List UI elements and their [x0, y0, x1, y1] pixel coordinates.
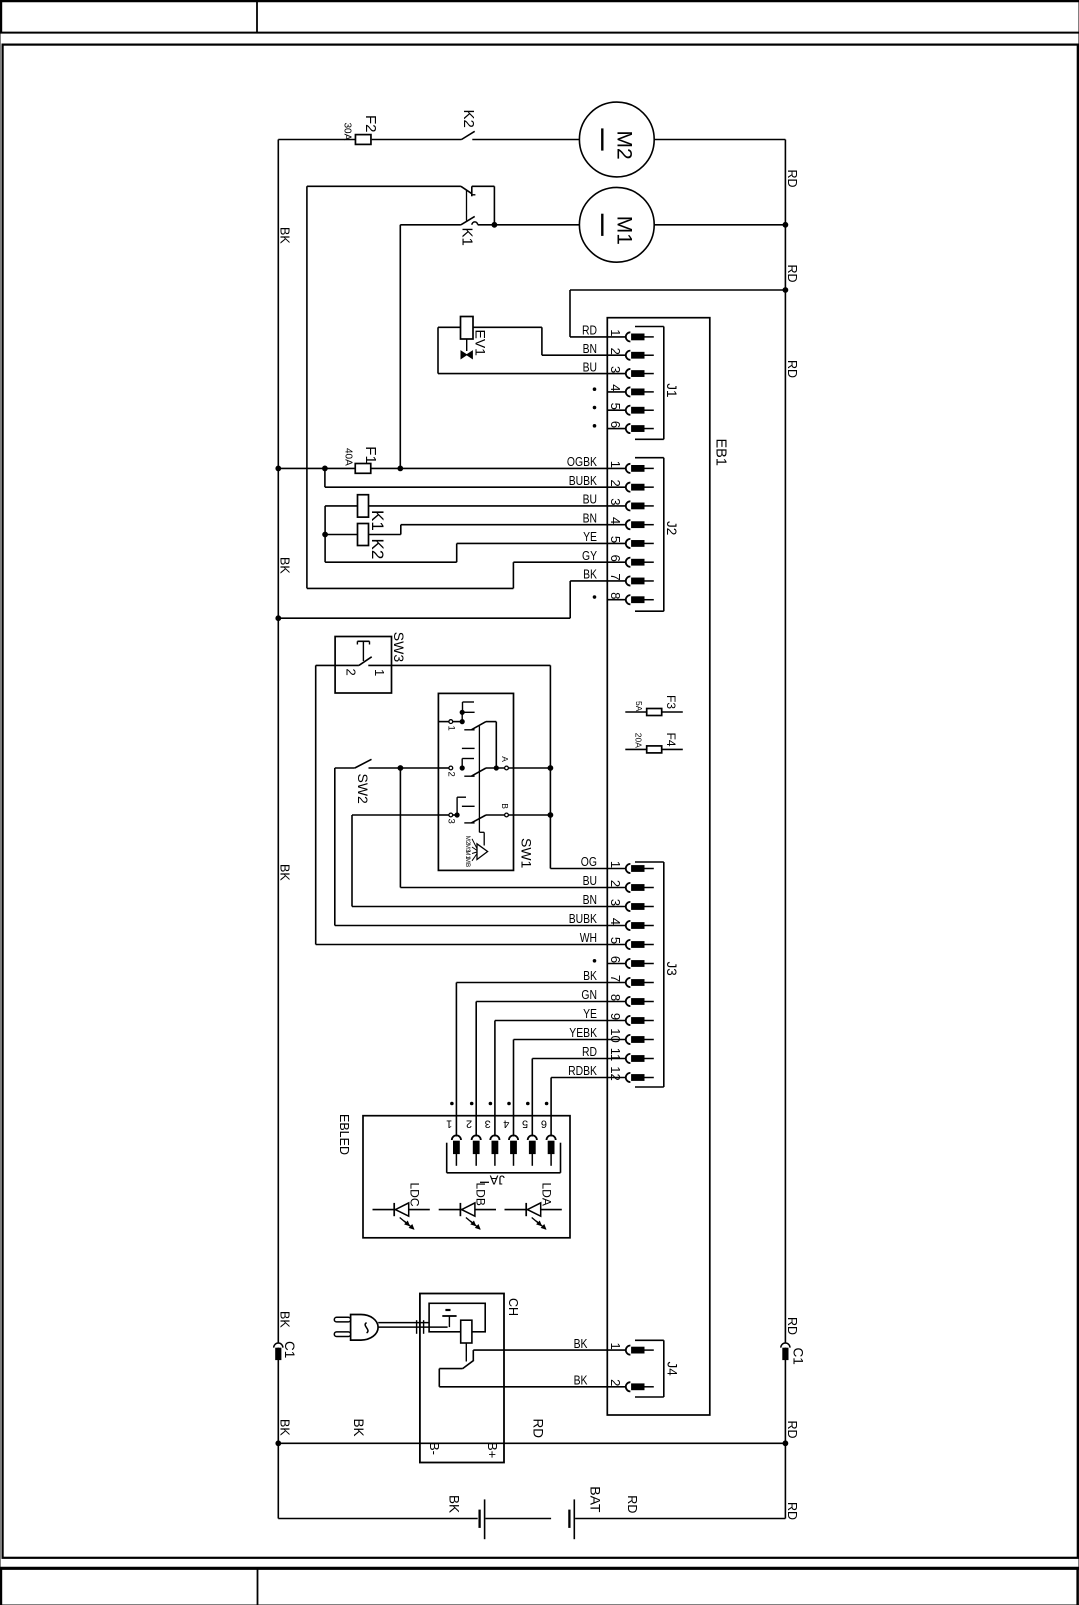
svg-text:1: 1 [446, 726, 457, 731]
svg-text:MB: MB [464, 858, 471, 867]
svg-text:LDC: LDC [408, 1183, 422, 1207]
svg-text:1: 1 [446, 1117, 452, 1129]
svg-text:40A: 40A [343, 448, 354, 466]
svg-text:B-: B- [427, 1442, 442, 1455]
svg-text:5: 5 [608, 937, 623, 944]
svg-text:BK: BK [278, 227, 292, 244]
svg-text:BK: BK [351, 1419, 366, 1437]
svg-text:RD: RD [785, 1502, 799, 1520]
svg-text:3: 3 [608, 366, 623, 373]
svg-text:4: 4 [608, 384, 623, 391]
svg-text:RD: RD [625, 1495, 639, 1513]
svg-text:WH: WH [580, 930, 597, 945]
svg-text:8: 8 [608, 994, 623, 1001]
svg-text:BU: BU [583, 492, 597, 507]
svg-text:A: A [500, 756, 510, 762]
svg-text:K2: K2 [368, 539, 387, 560]
svg-text:GY: GY [582, 548, 597, 563]
svg-text:BN: BN [583, 510, 597, 525]
svg-text:F4: F4 [664, 733, 678, 747]
svg-text:BAT: BAT [587, 1486, 603, 1513]
svg-text:LDB: LDB [474, 1183, 488, 1206]
svg-text:BUBK: BUBK [569, 911, 598, 926]
svg-text:BK: BK [574, 1373, 588, 1388]
svg-text:EBLED: EBLED [337, 1114, 351, 1155]
svg-text:EV1: EV1 [473, 330, 489, 357]
svg-text:RD: RD [582, 323, 597, 338]
svg-text:F1: F1 [362, 446, 379, 464]
svg-text:B: B [500, 803, 510, 809]
svg-text:6: 6 [608, 421, 623, 428]
svg-text:EB1: EB1 [713, 439, 729, 466]
svg-text:SW1: SW1 [519, 838, 535, 869]
svg-text:1: 1 [608, 461, 623, 468]
svg-text:5: 5 [608, 403, 623, 410]
svg-text:5: 5 [608, 536, 623, 543]
svg-text:2: 2 [446, 772, 457, 777]
svg-text:J3: J3 [664, 962, 679, 976]
svg-text:CH: CH [506, 1298, 520, 1316]
svg-text:6: 6 [608, 555, 623, 562]
svg-text:BK: BK [583, 567, 597, 582]
svg-text:3: 3 [608, 899, 623, 906]
svg-text:OG: OG [581, 854, 597, 869]
svg-text:4: 4 [608, 918, 623, 925]
svg-text:BU: BU [583, 359, 597, 374]
svg-text:BK: BK [583, 968, 597, 983]
svg-text:BK: BK [278, 864, 292, 881]
svg-text:1: 1 [608, 861, 623, 868]
svg-text:YE: YE [583, 529, 597, 544]
svg-text:K2: K2 [460, 110, 477, 128]
svg-text:RD: RD [531, 1419, 546, 1439]
svg-text:K1: K1 [368, 510, 387, 531]
svg-text:1: 1 [608, 1342, 623, 1349]
svg-text:7: 7 [608, 975, 623, 982]
svg-text:2: 2 [608, 1379, 623, 1386]
svg-text:BU: BU [583, 873, 597, 888]
svg-text:RDBK: RDBK [568, 1063, 597, 1078]
svg-text:2: 2 [608, 880, 623, 887]
svg-text:YEBK: YEBK [569, 1025, 597, 1040]
svg-text:SW2: SW2 [355, 774, 371, 805]
svg-text:20A: 20A [634, 733, 644, 748]
svg-text:B+: B+ [485, 1442, 500, 1458]
svg-text:6: 6 [608, 956, 623, 963]
svg-text:2: 2 [343, 669, 358, 676]
svg-text:2: 2 [466, 1117, 472, 1129]
svg-text:1: 1 [608, 329, 623, 336]
svg-text:F2: F2 [362, 115, 379, 133]
svg-text:8: 8 [608, 592, 623, 599]
svg-text:BK: BK [278, 1419, 292, 1436]
svg-text:7: 7 [608, 573, 623, 580]
svg-text:M1: M1 [613, 216, 636, 245]
svg-text:RD: RD [785, 360, 799, 378]
svg-text:K1: K1 [459, 228, 476, 246]
svg-text:BN: BN [583, 892, 597, 907]
svg-text:SW3: SW3 [391, 632, 407, 663]
svg-text:4: 4 [608, 517, 623, 524]
svg-text:3: 3 [608, 498, 623, 505]
svg-text:J1: J1 [664, 383, 679, 397]
svg-text:J4: J4 [664, 1362, 679, 1377]
svg-text:12: 12 [608, 1066, 623, 1080]
svg-text:GN: GN [581, 987, 597, 1002]
svg-text:6: 6 [541, 1117, 547, 1129]
svg-text:JA: JA [489, 1173, 505, 1188]
svg-text:30A: 30A [342, 123, 353, 141]
svg-text:RD: RD [582, 1044, 597, 1059]
svg-text:3: 3 [485, 1117, 491, 1129]
svg-text:J2: J2 [664, 521, 679, 535]
svg-text:1: 1 [372, 669, 387, 676]
svg-text:2: 2 [608, 348, 623, 355]
svg-text:5: 5 [522, 1117, 528, 1129]
svg-text:BK: BK [278, 557, 292, 574]
svg-text:RD: RD [785, 265, 799, 283]
svg-text:M2: M2 [613, 131, 636, 160]
svg-text:RD: RD [785, 170, 799, 188]
svg-text:F3: F3 [664, 695, 678, 709]
svg-text:C1: C1 [282, 1341, 297, 1358]
svg-text:9: 9 [608, 1013, 623, 1020]
svg-text:C1: C1 [791, 1348, 806, 1365]
svg-text:5A: 5A [634, 701, 644, 712]
svg-text:BN: BN [583, 341, 597, 356]
svg-text:BK: BK [574, 1336, 588, 1351]
svg-text:RD: RD [785, 1421, 799, 1439]
svg-text:3: 3 [446, 819, 457, 824]
svg-text:LDA: LDA [540, 1183, 554, 1206]
svg-text:BK: BK [447, 1495, 462, 1513]
svg-text:10: 10 [608, 1028, 623, 1042]
svg-text:YE: YE [583, 1006, 597, 1021]
svg-text:BUBK: BUBK [569, 473, 598, 488]
svg-text:2: 2 [608, 480, 623, 487]
svg-text:RD: RD [785, 1317, 799, 1335]
svg-text:OGBK: OGBK [567, 454, 597, 469]
svg-text:BK: BK [278, 1311, 292, 1328]
svg-text:4: 4 [503, 1117, 509, 1129]
